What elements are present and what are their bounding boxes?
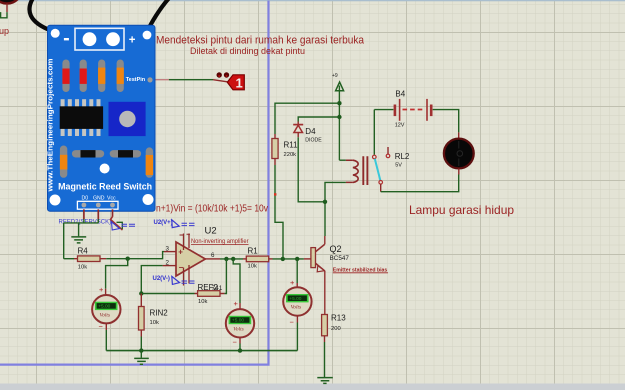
wire (emitter pin to R13) bbox=[324, 271, 326, 315]
svg-text:10k: 10k bbox=[248, 264, 257, 270]
wire (junction down to voltmeter 1) bbox=[106, 259, 128, 289]
lamp L1 bbox=[444, 132, 474, 174]
svg-text:D0: D0 bbox=[82, 196, 89, 202]
power pins top bbox=[184, 234, 190, 251]
terminal U2(V-) bbox=[153, 276, 195, 284]
wire (reed switch black lead, left) bbox=[29, 0, 52, 31]
svg-text:6: 6 bbox=[211, 252, 215, 259]
module potentiometer bbox=[109, 102, 146, 136]
pin 2 stub bbox=[163, 265, 176, 267]
svg-text:10k: 10k bbox=[198, 299, 207, 305]
voltmeter 3 bbox=[283, 278, 311, 327]
svg-text:www.TheEngineeringProjects.com: www.TheEngineeringProjects.com bbox=[47, 59, 54, 193]
pin GND stub bbox=[97, 209, 99, 219]
svg-text:Vcc: Vcc bbox=[107, 196, 116, 202]
svg-text:200: 200 bbox=[331, 326, 341, 332]
module resistor 3 bbox=[98, 60, 105, 93]
svg-text:10k: 10k bbox=[78, 265, 87, 271]
wire (op-amp output) bbox=[220, 258, 243, 260]
svg-text:−: − bbox=[290, 318, 295, 327]
svg-text:+5.00: +5.00 bbox=[98, 304, 110, 310]
op-amp U2 bbox=[163, 225, 249, 285]
wire (+9 to D4 top) bbox=[298, 117, 339, 122]
module side resistor right bbox=[146, 147, 153, 177]
pin Vcc stub bbox=[112, 209, 114, 217]
wire (R13 to ground) bbox=[324, 342, 326, 377]
resistor R1 bbox=[243, 247, 273, 270]
TestPin pad bbox=[147, 77, 152, 82]
wire (lamp pin, top-left) bbox=[6, 4, 8, 13]
svg-text:R13: R13 bbox=[331, 314, 346, 323]
svg-text:2: 2 bbox=[166, 259, 170, 266]
svg-text:+5.00: +5.00 bbox=[289, 296, 301, 302]
reed switch lever bbox=[111, 217, 123, 231]
svg-text:−: − bbox=[99, 322, 104, 331]
svg-text:U2(V-): U2(V-) bbox=[153, 276, 170, 282]
wire (top-left corner routing) bbox=[1, 12, 7, 18]
wire (battery right to lamp top) bbox=[433, 110, 459, 133]
svg-text:R1: R1 bbox=[248, 247, 259, 256]
wire (+9 to R11 top) bbox=[275, 103, 339, 134]
voltmeter 1 bbox=[92, 285, 120, 331]
node (base junction 2) bbox=[295, 257, 299, 261]
wire (collector pin) bbox=[324, 236, 326, 244]
power pins bottom bbox=[184, 265, 190, 286]
ground (module) bbox=[71, 237, 86, 243]
wire (relay NO to lamp bottom) bbox=[381, 175, 459, 192]
magnetic reed switch module (blue board) bbox=[47, 25, 155, 211]
resistor R4 bbox=[64, 247, 106, 271]
lamp (cut off, top-left corner) bbox=[0, 0, 22, 4]
node (voltmeter 2 on bus) bbox=[238, 348, 242, 352]
wire (collector to coil node) bbox=[324, 202, 326, 236]
svg-text:+: + bbox=[99, 285, 104, 294]
corner hole top-left bbox=[51, 29, 60, 38]
module resistor 4 bbox=[117, 60, 124, 93]
wire (TestPin to marker, pink segment) bbox=[153, 79, 169, 81]
wire (R1 to Q2 base) bbox=[273, 258, 304, 260]
wire (node to relay coil bottom) bbox=[325, 182, 346, 201]
wire (voltmeter 3 to bus) bbox=[296, 323, 298, 351]
svg-text:12V: 12V bbox=[395, 123, 405, 129]
svg-text:1: 1 bbox=[236, 75, 243, 90]
minus label bbox=[64, 38, 69, 40]
transistor Q2 bbox=[304, 244, 349, 272]
window top edge strip bbox=[0, 0, 625, 1]
ground (bus) bbox=[134, 351, 149, 365]
module center hole bbox=[100, 164, 110, 174]
svg-text:GND: GND bbox=[93, 196, 105, 202]
diode D4 bbox=[293, 122, 322, 144]
svg-text:RIN2: RIN2 bbox=[150, 309, 169, 318]
pin 3 stub bbox=[164, 251, 176, 253]
reed switch actuator triangle bbox=[112, 222, 120, 230]
module diode 2 bbox=[110, 150, 141, 157]
wire (junction to voltmeter 3) bbox=[296, 259, 298, 283]
wire (R4 to op-amp pin 3) bbox=[106, 252, 164, 259]
power +9 terminal bbox=[332, 73, 344, 91]
relay coil bbox=[346, 160, 353, 182]
svg-text:+: + bbox=[129, 35, 136, 47]
wire (+9 rail) bbox=[338, 86, 340, 161]
node (output junction 2) bbox=[231, 257, 235, 261]
svg-text:+: + bbox=[290, 278, 295, 287]
reed switch dashed marker bbox=[122, 224, 136, 226]
relay core bars bbox=[363, 156, 367, 185]
corner hole bottom-right bbox=[143, 194, 154, 205]
module diode 1 bbox=[72, 150, 104, 157]
wire (RIN2 to bus) bbox=[140, 337, 142, 351]
svg-text:10k: 10k bbox=[150, 320, 159, 326]
svg-text:3: 3 bbox=[166, 245, 170, 252]
svg-text:Magnetic Reed Switch: Magnetic Reed Switch bbox=[58, 182, 152, 192]
resistor RIN2 bbox=[139, 294, 169, 337]
relay common pin bbox=[373, 110, 375, 155]
wire (output to voltmeter 2) bbox=[233, 259, 240, 303]
module side resistor left bbox=[60, 146, 67, 178]
node (+9 to D4) bbox=[337, 115, 341, 119]
node (+9 to R11) bbox=[337, 101, 341, 105]
terminal U2(V+) bbox=[154, 220, 195, 228]
relay lever bbox=[375, 159, 381, 181]
window bottom strip bbox=[0, 384, 625, 390]
wire (feedback from output to REF2) bbox=[224, 259, 226, 294]
module resistor 1 bbox=[62, 60, 69, 93]
svg-text:Q2: Q2 bbox=[330, 244, 342, 254]
pin D0 stub bbox=[83, 209, 85, 219]
marker dot B bbox=[224, 72, 229, 77]
resistor R13 bbox=[322, 314, 347, 342]
relay RL2 bbox=[346, 110, 410, 192]
wire (TestPin to marker, red segment) bbox=[213, 80, 227, 82]
svg-text:R4: R4 bbox=[78, 247, 89, 256]
svg-text:Lampu garasi hidup: Lampu garasi hidup bbox=[409, 203, 514, 217]
module pin header bbox=[77, 201, 118, 209]
node (inverting input junction) bbox=[139, 291, 143, 295]
resistor REF2 bbox=[195, 283, 225, 305]
wire (TestPin to marker, green segment) bbox=[169, 79, 213, 81]
resistor R11 bbox=[272, 134, 298, 165]
svg-text:741: 741 bbox=[212, 285, 223, 292]
node (output junction 1) bbox=[224, 257, 228, 261]
svg-text:R11: R11 bbox=[284, 141, 299, 150]
terminal block bbox=[75, 28, 124, 50]
svg-text:U2(V+): U2(V+) bbox=[154, 220, 173, 226]
ground (R13) bbox=[317, 378, 333, 384]
wire (+9 to relay coil top) bbox=[339, 159, 346, 161]
voltmeter 2 bbox=[226, 299, 254, 346]
node (coil / collector / D4) bbox=[323, 200, 327, 204]
wire (battery left to relay common) bbox=[374, 109, 393, 111]
wire (inverting input net) bbox=[141, 266, 194, 294]
wire (R11 bottom to base net) bbox=[275, 165, 283, 259]
module IC bbox=[60, 99, 103, 136]
wire (D4 to coil node) bbox=[298, 137, 325, 202]
svg-text:Volts: Volts bbox=[100, 312, 110, 318]
corner hole top-right bbox=[143, 31, 152, 40]
marker dot A bbox=[217, 72, 222, 77]
svg-text:Volts: Volts bbox=[291, 305, 301, 311]
svg-text:Diletak di dinding dekat pintu: Diletak di dinding dekat pintu bbox=[190, 46, 305, 56]
svg-text:5V: 5V bbox=[395, 163, 402, 169]
svg-text:+: + bbox=[178, 247, 183, 256]
svg-text:BC547: BC547 bbox=[330, 255, 350, 262]
node (R4 output junction) bbox=[126, 257, 130, 261]
wire (ground bus) bbox=[106, 350, 297, 352]
corner hole bottom-left bbox=[50, 195, 61, 206]
svg-text:Volts: Volts bbox=[233, 327, 243, 333]
svg-text:n+1)Vin = (10k/10k +1)5= 10v: n+1)Vin = (10k/10k +1)5= 10v bbox=[156, 203, 269, 215]
svg-text:+9: +9 bbox=[332, 73, 338, 79]
svg-text:up: up bbox=[0, 26, 9, 36]
svg-text:Mendeteksi pintu dari rumah ke: Mendeteksi pintu dari rumah ke garasi te… bbox=[156, 34, 365, 46]
selection rectangle (violet) bbox=[0, 1, 269, 365]
wire (module D0/GND net) bbox=[64, 219, 99, 259]
svg-text:−: − bbox=[233, 338, 238, 347]
wire (reed switch black lead, right) bbox=[147, 0, 171, 33]
relay NC pin bbox=[387, 147, 389, 154]
relay NO pin bbox=[379, 181, 383, 185]
module resistor 2 bbox=[80, 60, 87, 93]
svg-text:TestPin: TestPin bbox=[126, 77, 146, 83]
svg-text:220k: 220k bbox=[284, 152, 297, 158]
marker dot (red, on R11 wire) bbox=[274, 193, 276, 195]
svg-text:RL2: RL2 bbox=[395, 152, 410, 161]
battery B4 bbox=[394, 90, 433, 129]
wire (voltmeter 1 to bus) bbox=[105, 330, 107, 351]
svg-text:+5.00: +5.00 bbox=[232, 318, 244, 324]
node (base junction 1) bbox=[281, 257, 285, 261]
wire (voltmeter 2 to bus) bbox=[239, 344, 241, 351]
reed switch terminal wire bbox=[117, 222, 123, 229]
svg-text:U2: U2 bbox=[205, 225, 217, 236]
svg-text:DIODE: DIODE bbox=[305, 137, 322, 143]
svg-text:+: + bbox=[234, 299, 239, 308]
svg-text:D4: D4 bbox=[305, 127, 316, 136]
svg-text:B4: B4 bbox=[395, 90, 405, 99]
node (RIN2 on bus) bbox=[139, 348, 143, 352]
flag marker 1 bbox=[227, 75, 244, 91]
output pin 6 bbox=[205, 258, 220, 260]
